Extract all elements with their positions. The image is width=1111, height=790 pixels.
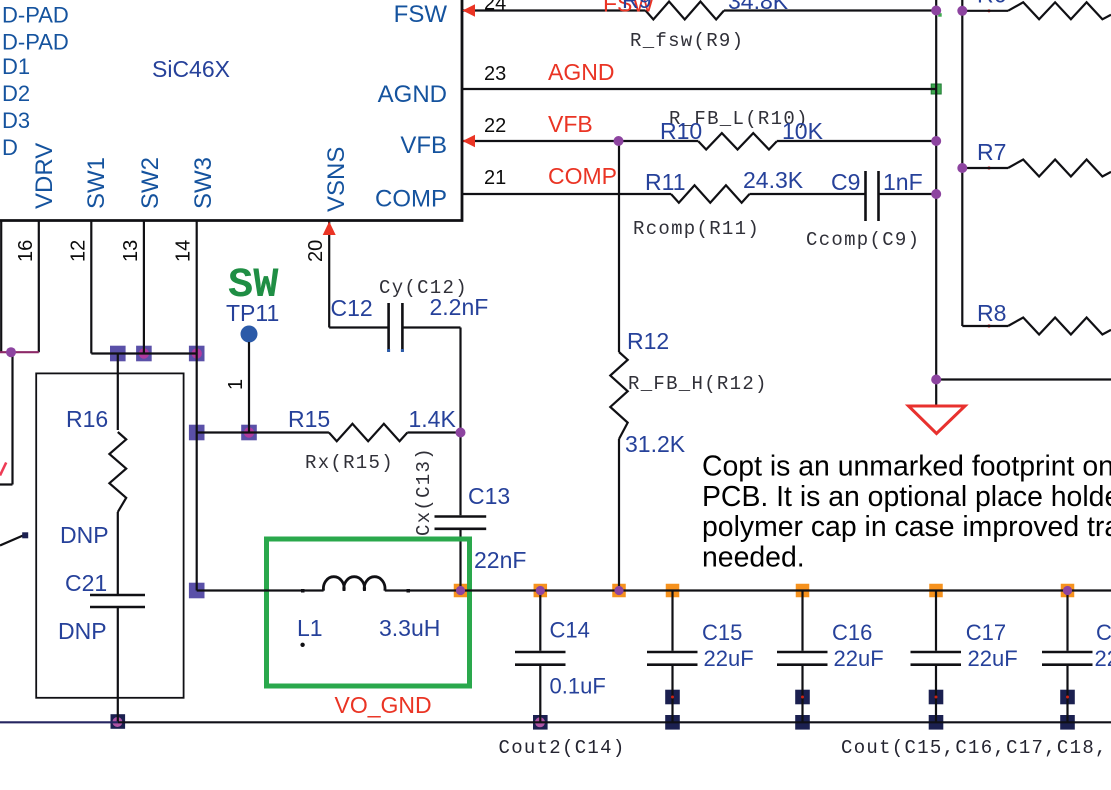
svg-text:10K: 10K — [782, 118, 824, 144]
svg-text:L1: L1 — [297, 615, 323, 641]
svg-text:C16: C16 — [832, 620, 872, 645]
svg-text:D3: D3 — [2, 108, 30, 133]
svg-text:D-PAD: D-PAD — [2, 30, 69, 55]
svg-text:Cout(C15,C16,C17,C18,: Cout(C15,C16,C17,C18, — [841, 737, 1108, 759]
svg-text:16: 16 — [15, 240, 37, 262]
svg-text:DNP: DNP — [58, 618, 107, 644]
svg-text:D2: D2 — [2, 81, 30, 106]
svg-text:3.3uH: 3.3uH — [379, 615, 440, 641]
svg-text:1nF: 1nF — [883, 169, 923, 195]
svg-text:0.1uF: 0.1uF — [550, 674, 606, 699]
svg-text:D-PAD: D-PAD — [2, 3, 69, 28]
svg-text:14: 14 — [173, 240, 195, 262]
svg-text:Cout2(C14): Cout2(C14) — [499, 737, 626, 759]
svg-text:22uF: 22uF — [1095, 646, 1111, 671]
svg-text:VSNS: VSNS — [323, 147, 350, 212]
svg-text:22nF: 22nF — [474, 547, 526, 573]
svg-text:R15: R15 — [288, 406, 330, 432]
svg-text:SW3: SW3 — [190, 157, 217, 209]
svg-text:R6: R6 — [977, 0, 1006, 8]
svg-text:Cx(C13): Cx(C13) — [413, 447, 435, 536]
svg-text:R9: R9 — [622, 0, 651, 13]
svg-text:R8: R8 — [977, 300, 1006, 326]
svg-text:VO_GND: VO_GND — [335, 692, 432, 718]
svg-text:FSW: FSW — [394, 1, 448, 28]
svg-text:R_FB_H(R12): R_FB_H(R12) — [628, 373, 768, 395]
svg-text:2.2nF: 2.2nF — [430, 294, 489, 320]
svg-text:VFB: VFB — [400, 132, 447, 159]
svg-text:VFB: VFB — [548, 111, 593, 137]
svg-text:34.8K: 34.8K — [728, 0, 789, 14]
svg-text:COMP: COMP — [548, 163, 617, 189]
svg-text:1: 1 — [225, 379, 247, 390]
svg-text:C18: C18 — [1096, 620, 1111, 645]
svg-text:C14: C14 — [550, 618, 590, 643]
svg-text:AGND: AGND — [548, 59, 614, 85]
svg-text:31.2K: 31.2K — [625, 431, 686, 457]
svg-text:PCB. It is an optional place h: PCB. It is an optional place holder — [702, 481, 1111, 513]
svg-text:22uF: 22uF — [834, 646, 884, 671]
svg-text:Rcomp(R11): Rcomp(R11) — [633, 218, 760, 240]
svg-text:1.4K: 1.4K — [409, 406, 457, 432]
svg-text:R7: R7 — [977, 139, 1006, 165]
svg-text:SW1: SW1 — [83, 157, 110, 209]
svg-text:R10: R10 — [660, 118, 702, 144]
svg-text:VDRV: VDRV — [31, 143, 58, 209]
svg-text:C12: C12 — [331, 295, 373, 321]
svg-text:R16: R16 — [66, 406, 108, 432]
svg-text:R11: R11 — [645, 169, 686, 195]
svg-text:C21: C21 — [65, 570, 107, 596]
svg-text:Copt is an unmarked footprint: Copt is an unmarked footprint on t — [702, 451, 1111, 483]
svg-text:22uF: 22uF — [704, 646, 754, 671]
svg-text:20: 20 — [305, 240, 327, 262]
svg-text:12: 12 — [67, 240, 89, 262]
svg-text:R_fsw(R9): R_fsw(R9) — [630, 30, 744, 52]
svg-text:C13: C13 — [468, 483, 510, 509]
svg-text:D: D — [2, 135, 18, 160]
svg-text:24: 24 — [484, 0, 506, 15]
svg-text:24.3K: 24.3K — [743, 167, 804, 193]
svg-text:AGND: AGND — [378, 81, 447, 108]
svg-text:Rx(R15): Rx(R15) — [305, 452, 394, 474]
svg-text:polymer cap in case improved t: polymer cap in case improved tran — [702, 511, 1111, 543]
svg-text:SW2: SW2 — [137, 157, 164, 209]
svg-text:DNP: DNP — [60, 522, 109, 548]
svg-text:C15: C15 — [702, 620, 742, 645]
svg-text:22uF: 22uF — [968, 646, 1018, 671]
svg-text:R12: R12 — [627, 328, 669, 354]
svg-text:13: 13 — [120, 240, 142, 262]
svg-text:23: 23 — [484, 63, 506, 85]
svg-text:COMP: COMP — [375, 186, 447, 213]
svg-text:C9: C9 — [831, 169, 860, 195]
svg-text:22: 22 — [484, 115, 506, 137]
svg-text:Ccomp(C9): Ccomp(C9) — [806, 229, 920, 251]
svg-text:TP11: TP11 — [226, 300, 279, 326]
svg-text:SiC46X: SiC46X — [152, 56, 230, 82]
svg-text:21: 21 — [484, 167, 506, 189]
svg-text:D1: D1 — [2, 54, 30, 79]
svg-text:C17: C17 — [966, 620, 1006, 645]
svg-text:needed.: needed. — [702, 541, 805, 573]
